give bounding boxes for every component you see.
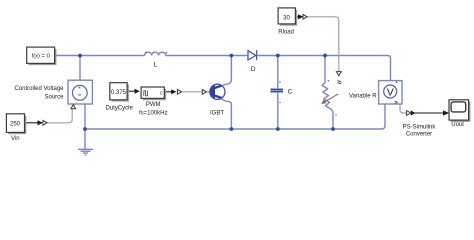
svg-text:250: 250	[10, 121, 21, 127]
svg-text:D: D	[251, 66, 256, 73]
svg-text:Vin: Vin	[11, 136, 20, 142]
svg-text:PS-Simulink: PS-Simulink	[403, 124, 437, 130]
svg-text:Variable R: Variable R	[349, 94, 377, 100]
svg-text:Source: Source	[44, 95, 64, 101]
svg-text:c: c	[160, 90, 163, 96]
svg-text:Rload: Rload	[278, 30, 294, 36]
svg-text:L: L	[153, 61, 157, 68]
svg-text:30: 30	[283, 16, 290, 22]
svg-text:V: V	[387, 86, 394, 98]
svg-text:Uout: Uout	[451, 122, 464, 128]
svg-text:f(x) = 0: f(x) = 0	[32, 54, 50, 60]
svg-text:PWM: PWM	[146, 102, 161, 108]
svg-text:Converter: Converter	[406, 132, 432, 138]
svg-text:fs=100kHz: fs=100kHz	[139, 111, 168, 117]
svg-text:DutyCycle: DutyCycle	[106, 106, 134, 112]
svg-text:IGBT: IGBT	[210, 110, 224, 116]
svg-text:0.375: 0.375	[111, 90, 127, 96]
svg-text:C: C	[288, 89, 293, 96]
svg-text:Controlled Voltage: Controlled Voltage	[14, 86, 64, 92]
